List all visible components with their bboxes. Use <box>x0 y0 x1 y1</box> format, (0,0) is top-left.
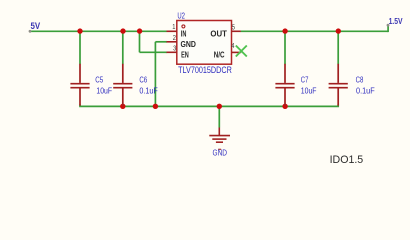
pin 2 stub GND <box>167 41 177 43</box>
svg-text:IDO1.5: IDO1.5 <box>330 154 364 166</box>
svg-text:OUT: OUT <box>210 29 227 39</box>
junction J4 top C7 <box>282 28 287 33</box>
svg-text:4: 4 <box>231 41 234 50</box>
wire C8 top lead <box>337 31 339 64</box>
junction J1 top C5 <box>77 28 82 33</box>
wire GND pin vertical <box>154 42 156 107</box>
svg-text:IN: IN <box>181 29 187 39</box>
capacitor C6 symbol <box>113 64 132 106</box>
wire EN tap vertical <box>139 31 141 52</box>
ground symbol anchor tick <box>218 149 221 150</box>
svg-text:5V: 5V <box>31 21 41 31</box>
junction J5 top C8 <box>336 28 341 33</box>
svg-text:TLV70015DDCR: TLV70015DDCR <box>178 65 232 75</box>
svg-text:C7: C7 <box>301 75 309 85</box>
wire EN tap horizontal <box>140 51 168 53</box>
svg-text:U2: U2 <box>177 10 185 20</box>
junction J3 top EN tap <box>137 28 142 33</box>
capacitor C5 symbol <box>70 64 89 106</box>
svg-text:0.1uF: 0.1uF <box>356 86 375 96</box>
wire output rail <box>241 30 389 32</box>
svg-text:GND: GND <box>213 147 228 157</box>
pin 5 stub OUT <box>232 30 241 32</box>
capacitor C7 symbol <box>275 64 294 106</box>
svg-text:10uF: 10uF <box>301 86 317 96</box>
wire 5V input rail <box>30 30 167 32</box>
svg-text:C5: C5 <box>95 75 103 85</box>
pin 1 indicator dot <box>182 25 185 28</box>
svg-text:3: 3 <box>173 43 176 52</box>
no-connect X on pin 4 <box>236 46 247 57</box>
wire GND symbol stub <box>218 106 220 127</box>
IC U2 body <box>177 21 232 65</box>
wire GND pin horizontal <box>155 41 167 43</box>
svg-text:10uF: 10uF <box>96 86 112 96</box>
junction J2 top C6 <box>120 28 125 33</box>
node 1.5V terminal dot <box>387 24 390 27</box>
svg-text:N/C: N/C <box>214 50 225 60</box>
pin 1 stub IN <box>167 30 177 32</box>
wire C5 top lead <box>79 31 81 64</box>
wire C7 top lead <box>284 31 286 64</box>
pin 3 stub EN <box>167 51 177 53</box>
svg-text:EN: EN <box>181 50 189 60</box>
wire C6 top lead <box>122 31 124 64</box>
pin 4 stub N/C <box>232 51 242 53</box>
svg-text:2: 2 <box>173 33 176 42</box>
junction J6 rail C6 <box>120 104 125 109</box>
capacitor C8 symbol <box>329 64 348 106</box>
junction J7 rail GND pin <box>153 104 158 109</box>
svg-text:C6: C6 <box>139 75 147 85</box>
node 5V terminal dot <box>29 30 32 33</box>
ground symbol <box>209 128 230 143</box>
svg-text:C8: C8 <box>356 75 364 85</box>
junction J9 rail C7 <box>282 104 287 109</box>
svg-text:1: 1 <box>172 22 175 31</box>
wire 1.5V riser <box>387 25 389 32</box>
svg-text:5: 5 <box>232 22 235 31</box>
wire ground rail <box>80 105 338 107</box>
svg-text:0.1uF: 0.1uF <box>139 86 157 96</box>
junction J8 rail GND symbol <box>217 104 222 109</box>
svg-text:GND: GND <box>181 39 196 49</box>
svg-text:1.5V: 1.5V <box>389 17 403 26</box>
